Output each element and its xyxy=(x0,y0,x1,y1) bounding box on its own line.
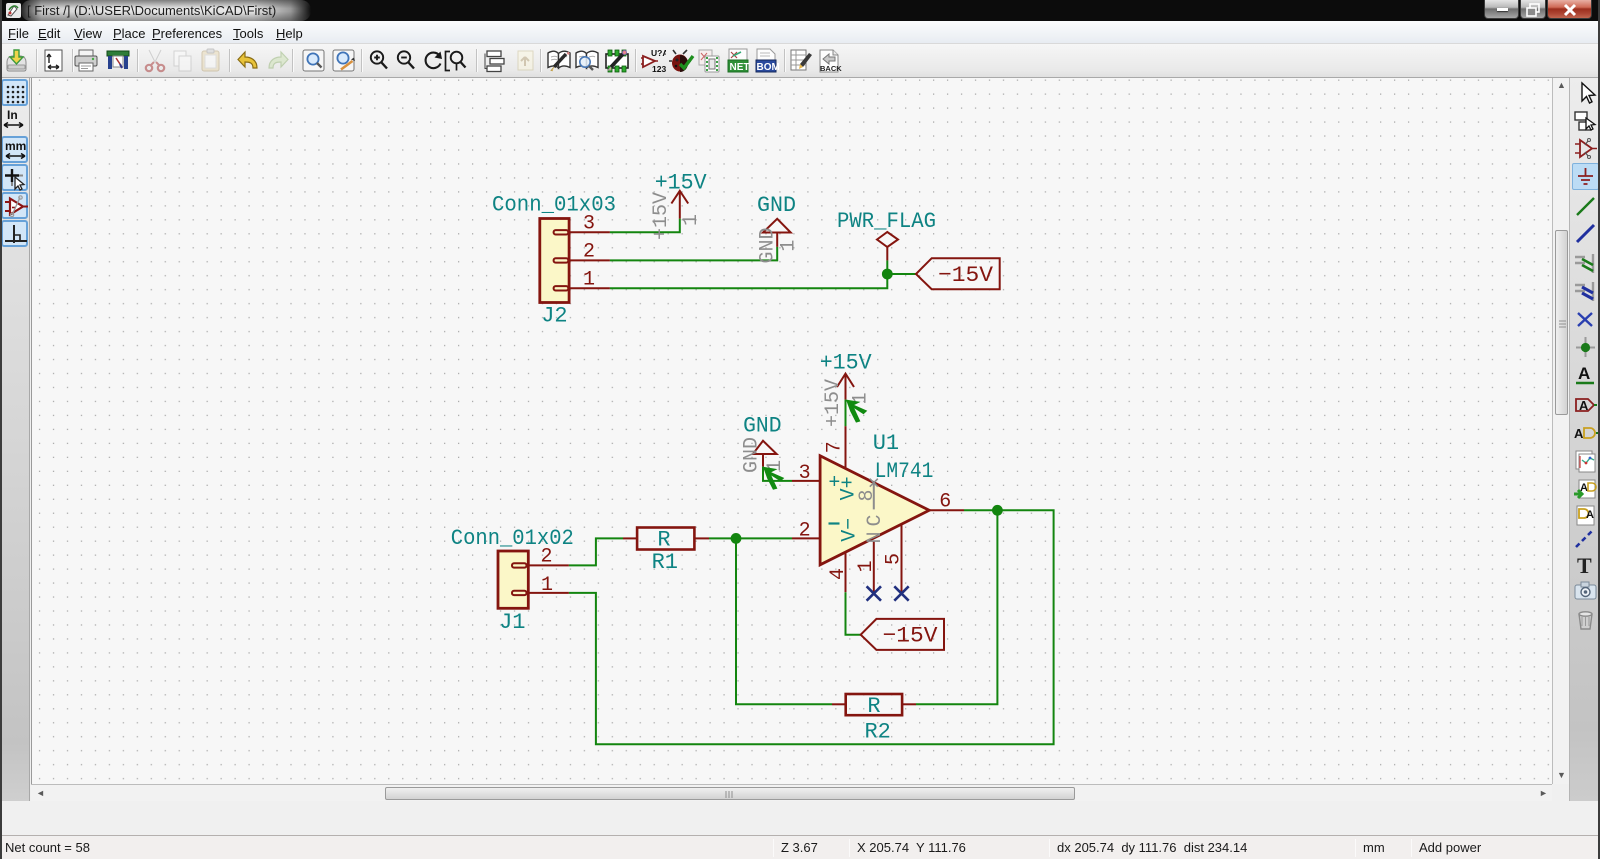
wire J2 pin2 to GND xyxy=(610,247,777,261)
power symbol +15V (op-amp) xyxy=(820,350,873,427)
U1 pin 4 (V-) xyxy=(827,518,861,592)
wire feedback down to R2 xyxy=(736,538,832,704)
J1 pin 1 xyxy=(528,574,569,597)
svg-text:123: 123 xyxy=(652,64,666,74)
U1 hidden pin 8 NC xyxy=(856,479,887,544)
R2 value label R xyxy=(867,694,880,719)
ERC marker at U1 pin 7 xyxy=(846,400,867,423)
svg-text:R1: R1 xyxy=(652,550,678,575)
svg-text:4: 4 xyxy=(827,568,850,580)
U1 value LM741 xyxy=(875,459,934,484)
svg-text:R: R xyxy=(867,694,880,719)
svg-text:3: 3 xyxy=(799,462,811,485)
wire R1 to U1 pin 2 xyxy=(709,537,792,539)
svg-text:U?A: U?A xyxy=(651,48,666,58)
svg-text:2: 2 xyxy=(799,519,811,542)
U1 pin 7 (V+) xyxy=(824,426,861,500)
power symbol GND (op-amp) xyxy=(741,413,787,473)
svg-text:8: 8 xyxy=(856,489,879,501)
svg-text:−15V: −15V xyxy=(883,624,939,649)
PWR_FLAG xyxy=(837,209,936,261)
wire U1 pin6 to junction xyxy=(964,509,997,511)
no-connect X on pin 1 xyxy=(867,586,881,600)
global label -15V (top) xyxy=(916,258,1000,289)
wire J1 pin2 to R1 xyxy=(569,538,623,565)
power symbol GND (top) xyxy=(757,193,801,264)
svg-text:T: T xyxy=(1577,553,1592,578)
wire +15V to U1 pin 7 xyxy=(845,400,847,427)
schematic canvas xyxy=(31,78,1552,784)
J2 pin 2 xyxy=(569,241,610,264)
J1 reference label xyxy=(499,610,525,635)
svg-text:5: 5 xyxy=(883,553,906,565)
svg-text:1: 1 xyxy=(583,269,595,292)
svg-text:GND: GND xyxy=(757,227,780,263)
svg-text:+15V: +15V xyxy=(655,171,708,196)
svg-text:1: 1 xyxy=(855,560,878,572)
power symbol +15V (top) xyxy=(650,171,708,241)
U1 reference label xyxy=(873,431,899,456)
svg-text:6: 6 xyxy=(939,491,951,514)
svg-text:A: A xyxy=(1574,426,1584,441)
wire junction to -15V label xyxy=(887,273,916,275)
svg-text:mm: mm xyxy=(5,139,26,153)
J2 pin 3 xyxy=(569,213,610,236)
svg-text:+15V: +15V xyxy=(820,350,873,375)
wire R2 to output node xyxy=(916,510,997,704)
window title bar xyxy=(0,0,1600,21)
J2 pin 1 xyxy=(569,269,610,292)
svg-text:1: 1 xyxy=(778,240,801,252)
wire output loop to J1 pin1 xyxy=(569,510,1054,744)
svg-text:NET: NET xyxy=(730,62,750,73)
svg-text:Conn_01x02: Conn_01x02 xyxy=(451,526,574,551)
top toolbar xyxy=(0,44,1600,78)
svg-text:2: 2 xyxy=(540,546,552,569)
U1 pin 2 xyxy=(792,519,840,542)
svg-text:+15V: +15V xyxy=(650,192,673,240)
svg-text:BACK: BACK xyxy=(820,64,842,73)
R1 value label R xyxy=(657,528,670,553)
scrollbars xyxy=(1552,78,1569,784)
J1 pin 2 xyxy=(528,546,569,569)
svg-text:A: A xyxy=(1586,509,1594,521)
J1 value label Conn_01x02 xyxy=(451,526,574,551)
svg-text:NC: NC xyxy=(864,509,887,543)
wire U1 pin 4 to -15V label xyxy=(846,592,861,635)
U1 pin 6 output xyxy=(929,491,964,514)
svg-text:2: 2 xyxy=(583,241,595,264)
no-connect X on pin 5 xyxy=(894,586,908,600)
svg-text:A: A xyxy=(1579,398,1589,413)
svg-text:+15V: +15V xyxy=(822,379,845,427)
svg-text:PWR_FLAG: PWR_FLAG xyxy=(837,209,936,234)
status bar xyxy=(0,837,1600,859)
svg-text:1: 1 xyxy=(680,214,703,226)
svg-text:GND: GND xyxy=(757,193,796,218)
svg-text:7: 7 xyxy=(824,441,847,453)
U1 pin 5 offset null xyxy=(883,524,906,593)
svg-text:In: In xyxy=(7,108,18,122)
wire J2 pin3 to +15V xyxy=(610,219,680,233)
wire J2 pin1 to -15V net xyxy=(610,260,887,288)
resistor R2 body xyxy=(832,694,916,715)
R1 reference label xyxy=(652,550,678,575)
svg-text:Conn_01x03: Conn_01x03 xyxy=(492,193,616,218)
svg-text:−15V: −15V xyxy=(938,263,994,288)
svg-text:V−: V− xyxy=(838,518,861,542)
left toolbar xyxy=(0,78,30,801)
svg-text:J1: J1 xyxy=(499,610,525,635)
R2 reference label xyxy=(864,720,890,745)
U1 pin 3 xyxy=(792,462,840,495)
right toolbar xyxy=(1569,78,1600,801)
svg-text:BOM: BOM xyxy=(757,62,780,73)
svg-text:R2: R2 xyxy=(864,720,890,745)
connector J2 body xyxy=(540,219,569,303)
resistor R1 body xyxy=(623,528,709,550)
svg-text:A: A xyxy=(1578,364,1590,383)
wire GND to U1 pin 3 xyxy=(763,467,792,481)
J2 reference label xyxy=(541,304,567,329)
op-amp U1 body xyxy=(820,456,929,565)
ERC marker at U1 pin 3 xyxy=(763,467,784,490)
svg-text:J2: J2 xyxy=(541,304,567,329)
junction at R1 / feedback xyxy=(731,533,742,544)
svg-text:3: 3 xyxy=(583,213,595,236)
connector J1 body xyxy=(498,551,528,608)
J2 value label Conn_01x03 xyxy=(492,193,616,218)
menu bar xyxy=(0,21,1600,44)
svg-text:GND: GND xyxy=(743,413,781,438)
svg-text:LM741: LM741 xyxy=(875,459,934,484)
svg-text:1: 1 xyxy=(541,574,553,597)
global label -15V (bottom) xyxy=(861,619,944,650)
U1 pin 1 offset null xyxy=(855,541,878,594)
svg-text:U1: U1 xyxy=(873,431,899,456)
junction at PWR_FLAG xyxy=(882,269,893,280)
svg-text:GND: GND xyxy=(741,437,764,473)
junction at output xyxy=(992,505,1003,516)
